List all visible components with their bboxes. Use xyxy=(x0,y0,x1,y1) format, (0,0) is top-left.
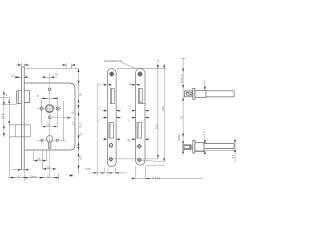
arrows faceplate bottom dim xyxy=(18,169,28,171)
svg-text:9,5x14: 9,5x14 xyxy=(180,74,184,83)
dim row y139.2 cutout bottom xyxy=(103,138,149,140)
svg-text:25: 25 xyxy=(79,132,83,136)
deadbolt xyxy=(9,125,30,137)
svg-text:72: 72 xyxy=(179,115,183,119)
plate1 bottom screw diamond xyxy=(109,157,114,162)
plate2 top screw hole xyxy=(138,72,142,76)
right dimension column xyxy=(78,69,80,175)
plate1 mid screw hole xyxy=(109,144,112,147)
arrows right margin dim xyxy=(234,140,236,152)
arrows plate2 bottom row xyxy=(132,178,149,180)
horizontal link y97.6 xyxy=(0,97,9,99)
side faceplate top xyxy=(193,88,195,99)
leader from plate1 diamond xyxy=(113,158,158,160)
horizontal centerline follower xyxy=(37,108,63,110)
tall dim texts xyxy=(154,124,158,129)
arrows side views xyxy=(182,69,184,153)
deadbolt head inner xyxy=(184,146,190,149)
cylinder fixing hole right xyxy=(56,139,58,141)
centerlines xyxy=(37,73,73,178)
svg-text:235: 235 xyxy=(161,106,165,111)
plate2 bottom dim row xyxy=(132,178,203,180)
arrow faceplate dim xyxy=(18,64,28,66)
dims around plates xyxy=(91,84,202,178)
plate1 latch cutout xyxy=(110,89,114,104)
tick top xyxy=(181,58,185,60)
extension below faceplate xyxy=(23,170,25,182)
extension x97.2 xyxy=(96,84,98,168)
leader line from small hole xyxy=(51,117,72,119)
svg-text:22: 22 xyxy=(97,83,101,87)
small mark near x71 bottom xyxy=(70,175,73,177)
vertical centerline of lock xyxy=(49,73,51,178)
faceplate front view xyxy=(22,67,25,170)
left extension x9.2 xyxy=(8,98,10,178)
plate1 bottom stubs xyxy=(105,168,116,173)
arrows plate1 bottom row xyxy=(94,172,119,174)
extension from plate2 bottom xyxy=(146,164,164,166)
arrows tall dims xyxy=(157,64,165,162)
arrow line x204.9 bottom xyxy=(204,136,206,155)
right column rotated texts xyxy=(79,92,83,96)
follower (square spindle hub) xyxy=(45,104,53,112)
svg-text:Stulp: Stulp xyxy=(30,175,37,179)
svg-text:10: 10 xyxy=(47,175,51,179)
svg-text:165: 165 xyxy=(79,155,83,160)
svg-text:9,5: 9,5 xyxy=(231,154,235,158)
dim row y168.9 xyxy=(43,168,57,170)
arrows cutout bottom row xyxy=(104,138,148,140)
extension x41.7 xyxy=(41,100,43,126)
dim row above follower xyxy=(40,97,58,99)
side faceplate bottom xyxy=(193,140,195,153)
plate2 bottom stubs xyxy=(136,166,145,178)
dim row y160.6 xyxy=(34,160,47,162)
side case top xyxy=(195,90,206,97)
arrows follower dim xyxy=(43,98,58,100)
arrow line x204.9 top xyxy=(204,84,206,90)
plate2 bottom screw diamond xyxy=(137,158,142,163)
extension y104.3 xyxy=(2,103,17,105)
svg-text:13,5: 13,5 xyxy=(1,113,5,119)
dim row y117.6 xyxy=(102,117,150,119)
plate1 top screw hole xyxy=(110,72,114,76)
arrows plate dim rows xyxy=(104,110,148,112)
plate2 deadbolt cutout xyxy=(137,123,142,139)
arrows bottom chain xyxy=(11,177,58,179)
svg-text:0,5 kg: 0,5 kg xyxy=(153,176,161,180)
left extension x3.9 xyxy=(3,90,5,138)
texts front view xyxy=(1,61,83,178)
dim row y77 left xyxy=(14,76,28,78)
svg-text:165: 165 xyxy=(154,124,158,129)
dim row above cylinder xyxy=(42,126,57,128)
fixing hole left of follower xyxy=(40,107,43,110)
latch bolt head xyxy=(17,91,22,104)
plate2 mid screw hole xyxy=(137,144,142,149)
svg-text:4,5: 4,5 xyxy=(202,80,206,84)
svg-text:Schließblech: Schließblech xyxy=(104,59,122,63)
fixing hole right of follower xyxy=(56,107,59,110)
svg-text:16: 16 xyxy=(11,73,15,77)
svg-text:25: 25 xyxy=(38,157,42,161)
leader line to plate2 xyxy=(121,62,135,68)
extension x57.7 xyxy=(57,100,59,126)
latch head inner xyxy=(186,92,192,95)
cylinder fixing hole left xyxy=(41,139,43,141)
small hole below follower xyxy=(48,116,51,119)
arrows left column xyxy=(3,91,10,137)
euro profile cylinder hole xyxy=(46,136,53,149)
plate1 bottom dim row xyxy=(91,169,127,176)
strike plate 2 outline xyxy=(136,68,145,165)
dim row y77 middle xyxy=(43,76,58,78)
dims side views xyxy=(181,59,236,163)
arrows cylinder dim xyxy=(42,126,57,128)
svg-text:55: 55 xyxy=(55,72,59,76)
arrows plate top dim row xyxy=(104,84,139,86)
extension x42.6 xyxy=(42,151,44,170)
side deadbolt head xyxy=(183,145,191,150)
tall dim line 2 xyxy=(163,64,165,162)
extension under bottom bar xyxy=(195,150,236,152)
gap lines xyxy=(191,145,192,150)
bottom chain left xyxy=(8,174,59,181)
svg-text:0,05: 0,05 xyxy=(85,167,91,171)
rotated texts side views xyxy=(180,74,184,83)
arrows rows below body xyxy=(34,160,57,170)
arrows y77 xyxy=(16,76,54,78)
svg-text:30: 30 xyxy=(47,165,51,169)
svg-text:20/25: 20/25 xyxy=(177,134,181,141)
side case bottom xyxy=(195,142,204,151)
dim row y169.8 faceplate xyxy=(12,169,31,171)
extension line along top left xyxy=(24,68,78,70)
plate top dim row y84.8 xyxy=(102,84,140,86)
arrows ticks 13 dim xyxy=(63,64,75,66)
side latch head xyxy=(184,91,192,97)
plate2 latch cutout xyxy=(139,89,143,104)
extension line along top right xyxy=(116,68,166,70)
strike plate 1 outline xyxy=(107,68,116,166)
right margin dim line xyxy=(234,137,236,162)
extension x33.8 xyxy=(33,151,35,162)
arrowheads front view xyxy=(3,64,80,179)
svg-text:10: 10 xyxy=(127,138,131,142)
vertical dim line x183 xyxy=(182,59,184,156)
svg-text:55: 55 xyxy=(79,92,83,96)
arrow leader small hole xyxy=(67,117,70,119)
plate1 deadbolt cutout xyxy=(109,123,114,139)
svg-text:72,5: 72,5 xyxy=(79,122,83,128)
dim ticks top right "13" xyxy=(63,63,75,68)
svg-text:25: 25 xyxy=(46,122,50,126)
top fixing hole xyxy=(48,88,51,91)
latch bolt inner body xyxy=(24,91,29,103)
leader from plate2 diamond xyxy=(141,160,164,161)
svg-text:1,5: 1,5 xyxy=(202,131,206,135)
side bar top xyxy=(206,91,234,97)
lock body outline xyxy=(24,83,75,150)
dim faceplate thickness "3" xyxy=(16,64,30,67)
extension x46.4 xyxy=(45,151,47,162)
side bar bottom xyxy=(204,144,234,149)
extension x63.7 xyxy=(63,101,65,141)
horizontal centerline cylinder xyxy=(37,139,67,141)
tall dim line 1 xyxy=(157,63,159,159)
dim row y110.6 xyxy=(102,110,150,112)
plate2 bevel line xyxy=(139,102,145,105)
arrows right column xyxy=(78,69,80,169)
rotated text left margin xyxy=(1,113,5,119)
